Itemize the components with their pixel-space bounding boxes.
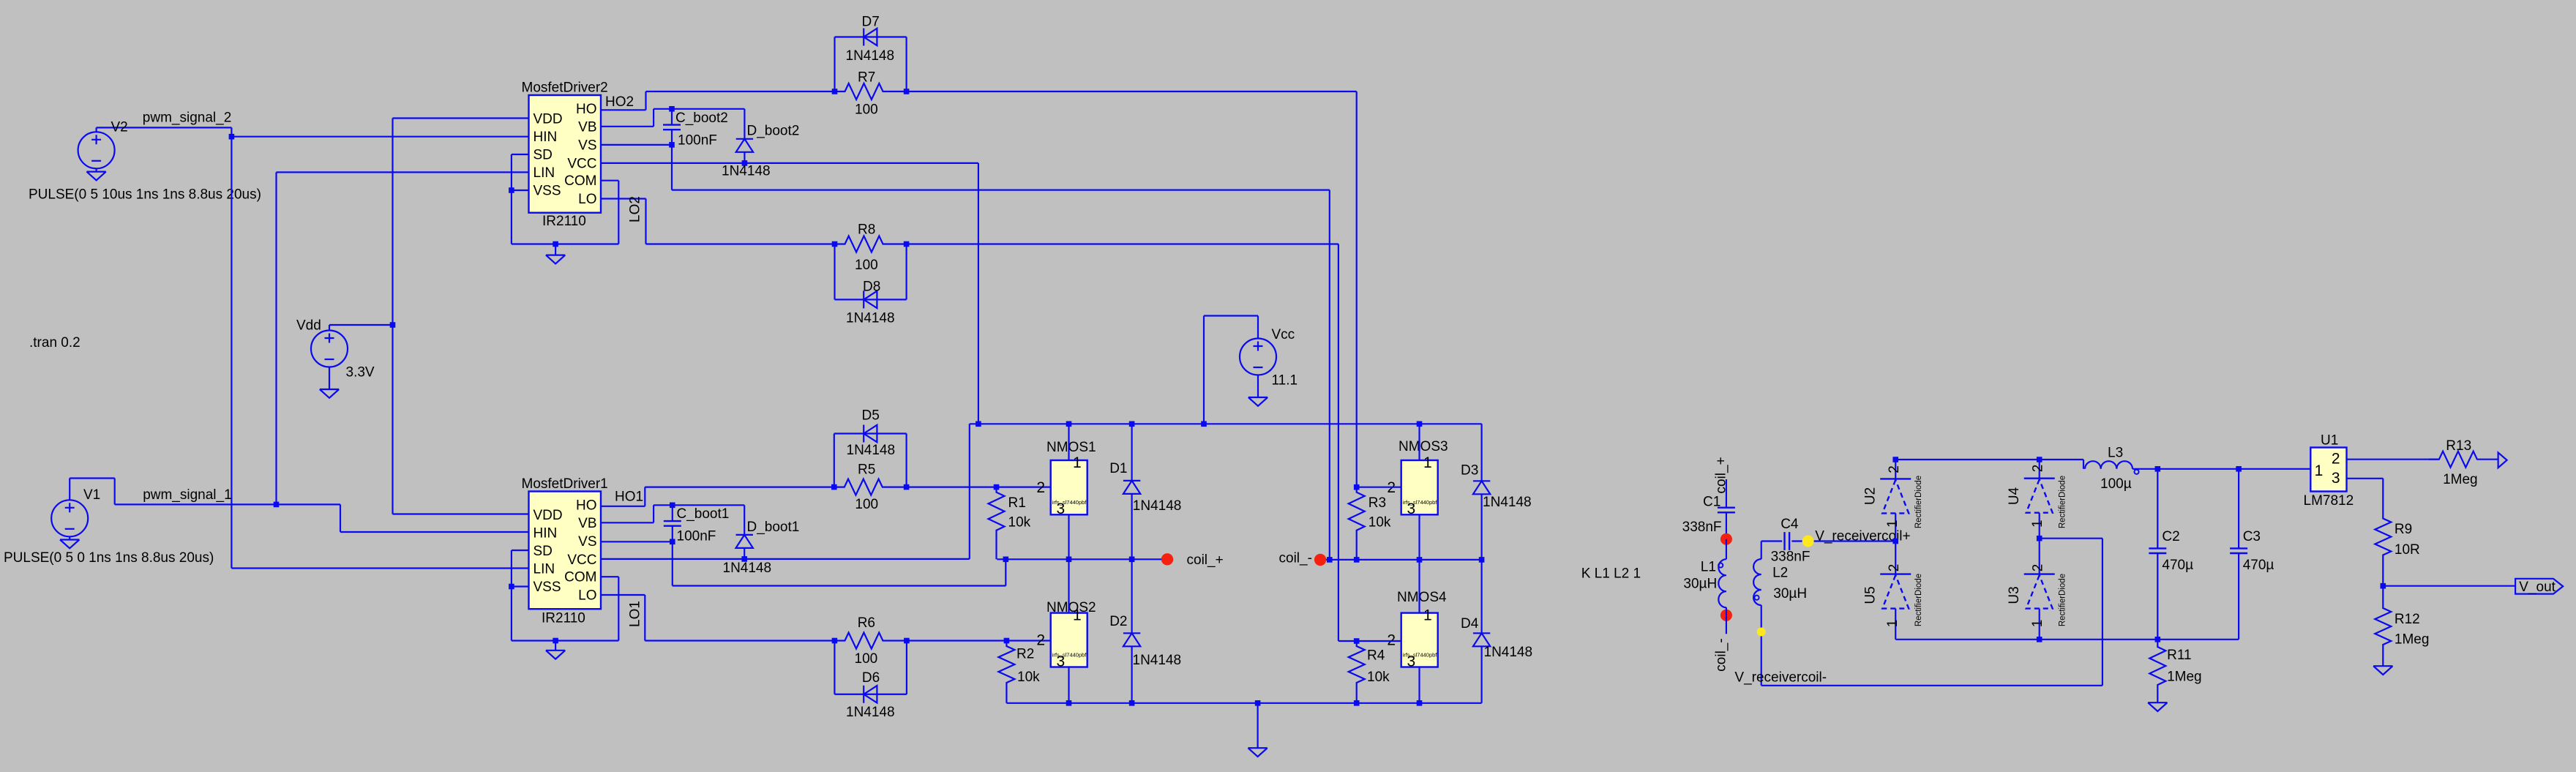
svg-text:2: 2 (1036, 632, 1045, 649)
svg-text:D_boot2: D_boot2 (747, 124, 800, 139)
svg-text:1N4148: 1N4148 (1133, 498, 1182, 514)
svg-text:VSS: VSS (533, 580, 561, 595)
svg-text:IR2110: IR2110 (542, 611, 585, 626)
svg-text:L3: L3 (2108, 446, 2123, 461)
svg-text:1Meg: 1Meg (2167, 670, 2202, 685)
svg-text:D7: D7 (862, 15, 880, 30)
svg-text:PULSE(0 5 10us 1ns 1ns 8.8us 2: PULSE(0 5 10us 1ns 1ns 8.8us 20us) (29, 187, 261, 203)
svg-text:100: 100 (855, 497, 878, 512)
svg-text:pwm_signal_1: pwm_signal_1 (143, 487, 231, 503)
svg-text:RectifierDiode: RectifierDiode (1914, 574, 1923, 626)
svg-text:2: 2 (1036, 479, 1045, 496)
svg-text:L1: L1 (1701, 560, 1716, 575)
svg-text:1Meg: 1Meg (2443, 472, 2478, 487)
svg-text:1: 1 (1423, 454, 1432, 471)
svg-text:V1: V1 (83, 487, 100, 503)
svg-text:LO: LO (578, 192, 596, 207)
svg-text:R3: R3 (1368, 495, 1386, 511)
svg-text:U5: U5 (1863, 586, 1879, 604)
svg-text:VB: VB (578, 120, 596, 135)
svg-text:IR2110: IR2110 (542, 214, 586, 229)
svg-text:VCC: VCC (567, 552, 596, 568)
svg-text:RectifierDiode: RectifierDiode (2059, 476, 2067, 528)
svg-text:R12: R12 (2395, 612, 2420, 627)
svg-text:C_boot1: C_boot1 (677, 506, 730, 522)
svg-text:D6: D6 (862, 670, 880, 686)
svg-text:11.1: 11.1 (1272, 373, 1298, 389)
svg-text:LO1: LO1 (628, 601, 643, 627)
svg-text:2: 2 (1887, 465, 1902, 473)
svg-text:SD: SD (533, 544, 553, 559)
svg-text:VDD: VDD (533, 508, 563, 523)
svg-text:D1: D1 (1109, 461, 1127, 476)
svg-text:coil_-: coil_- (1279, 551, 1312, 566)
svg-text:10R: 10R (2395, 542, 2420, 558)
svg-text:LM7812: LM7812 (2304, 493, 2354, 509)
svg-text:NMOS2: NMOS2 (1046, 600, 1096, 615)
svg-text:irfs_sl7440pbf: irfs_sl7440pbf (1403, 652, 1438, 659)
svg-text:100: 100 (855, 651, 878, 667)
svg-text:U2: U2 (1863, 487, 1879, 505)
svg-text:VS: VS (578, 138, 596, 154)
svg-text:10k: 10k (1017, 670, 1040, 685)
svg-text:MosfetDriver1: MosfetDriver1 (522, 476, 608, 492)
svg-text:coil_+: coil_+ (1187, 552, 1224, 568)
svg-text:COM: COM (564, 570, 596, 585)
svg-text:3.3V: 3.3V (346, 365, 375, 381)
svg-text:1Meg: 1Meg (2395, 632, 2430, 648)
svg-text:VSS: VSS (533, 184, 561, 199)
svg-text:.tran 0.2: .tran 0.2 (29, 335, 80, 351)
svg-text:R1: R1 (1008, 495, 1026, 511)
svg-text:1N4148: 1N4148 (1133, 653, 1182, 668)
svg-text:irfs_sl7440pbf: irfs_sl7440pbf (1052, 499, 1087, 506)
svg-text:irfs_sl7440pbf: irfs_sl7440pbf (1052, 652, 1087, 659)
svg-text:R4: R4 (1367, 648, 1385, 664)
svg-text:RectifierDiode: RectifierDiode (2059, 574, 2067, 626)
svg-text:100nF: 100nF (678, 133, 717, 149)
svg-text:1: 1 (2030, 620, 2045, 628)
svg-text:1N4148: 1N4148 (723, 561, 772, 576)
svg-text:D_boot1: D_boot1 (747, 520, 800, 535)
svg-text:1: 1 (1073, 607, 1082, 624)
svg-text:1: 1 (2030, 520, 2045, 528)
svg-text:NMOS1: NMOS1 (1046, 440, 1096, 455)
svg-text:U1: U1 (2321, 433, 2338, 449)
svg-text:338nF: 338nF (1771, 550, 1811, 565)
svg-text:30µH: 30µH (1683, 577, 1717, 592)
svg-text:1: 1 (1073, 454, 1082, 471)
svg-text:338nF: 338nF (1682, 520, 1722, 535)
svg-text:K L1 L2 1: K L1 L2 1 (1581, 566, 1641, 582)
svg-text:1N4148: 1N4148 (847, 443, 896, 458)
svg-text:SD: SD (533, 148, 553, 163)
svg-text:1N4148: 1N4148 (1484, 645, 1533, 660)
svg-text:LO2: LO2 (628, 196, 643, 222)
svg-text:2: 2 (1887, 564, 1902, 572)
svg-text:HIN: HIN (533, 526, 558, 541)
svg-text:U3: U3 (2007, 586, 2022, 604)
svg-text:1: 1 (1885, 620, 1901, 628)
svg-text:VS: VS (578, 534, 596, 550)
svg-text:VB: VB (578, 516, 596, 531)
svg-text:R11: R11 (2167, 648, 2191, 663)
svg-text:10k: 10k (1367, 670, 1390, 685)
svg-text:1N4148: 1N4148 (846, 48, 895, 64)
svg-text:470µ: 470µ (2162, 558, 2193, 573)
svg-text:D4: D4 (1461, 616, 1479, 632)
svg-text:V_out: V_out (2519, 580, 2556, 595)
svg-text:D3: D3 (1461, 463, 1478, 479)
svg-text:R5: R5 (858, 462, 875, 478)
svg-text:LIN: LIN (533, 165, 555, 181)
svg-text:HO: HO (576, 498, 597, 514)
svg-text:100nF: 100nF (677, 529, 716, 544)
svg-text:D5: D5 (862, 408, 880, 424)
svg-text:2: 2 (2332, 451, 2340, 468)
svg-text:470µ: 470µ (2243, 558, 2274, 573)
svg-text:10k: 10k (1368, 515, 1391, 531)
svg-text:1N4148: 1N4148 (1483, 495, 1532, 510)
svg-text:PULSE(0 5 0 1ns 1ns 8.8us 20us: PULSE(0 5 0 1ns 1ns 8.8us 20us) (4, 550, 214, 566)
svg-text:coil_-: coil_- (1713, 638, 1729, 671)
svg-text:1N4148: 1N4148 (722, 164, 771, 179)
svg-text:RectifierDiode: RectifierDiode (1914, 476, 1923, 528)
svg-text:LIN: LIN (533, 562, 555, 577)
svg-text:MosfetDriver2: MosfetDriver2 (522, 80, 608, 96)
svg-text:HO1: HO1 (615, 490, 643, 505)
svg-text:100: 100 (855, 258, 878, 273)
svg-text:10k: 10k (1008, 515, 1031, 531)
svg-text:1N4148: 1N4148 (846, 705, 895, 720)
svg-text:C4: C4 (1781, 517, 1799, 532)
svg-text:R2: R2 (1016, 647, 1034, 662)
svg-text:NMOS3: NMOS3 (1399, 439, 1448, 454)
svg-text:D2: D2 (1109, 614, 1127, 629)
svg-text:1: 1 (2315, 462, 2324, 479)
svg-text:R8: R8 (858, 222, 875, 238)
svg-text:C1: C1 (1703, 495, 1721, 510)
svg-text:NMOS4: NMOS4 (1397, 590, 1447, 605)
svg-text:V_receivercoil-: V_receivercoil- (1734, 670, 1827, 686)
svg-text:R6: R6 (858, 615, 875, 631)
svg-text:R13: R13 (2446, 438, 2471, 454)
svg-text:C2: C2 (2162, 529, 2179, 544)
svg-text:VCC: VCC (567, 157, 596, 172)
svg-text:2: 2 (2031, 564, 2046, 572)
svg-text:HO: HO (576, 102, 597, 117)
svg-text:C3: C3 (2243, 529, 2261, 544)
svg-text:R7: R7 (858, 70, 875, 86)
svg-text:irfs_sl7440pbf: irfs_sl7440pbf (1403, 499, 1438, 506)
svg-text:30µH: 30µH (1773, 586, 1807, 602)
svg-text:COM: COM (564, 173, 596, 189)
svg-text:1N4148: 1N4148 (846, 311, 895, 326)
svg-text:HIN: HIN (533, 130, 558, 145)
svg-text:100: 100 (855, 102, 878, 118)
svg-text:R9: R9 (2395, 522, 2412, 537)
svg-text:1: 1 (1423, 607, 1432, 624)
svg-text:U4: U4 (2007, 487, 2022, 505)
svg-text:HO2: HO2 (605, 94, 634, 110)
svg-text:D8: D8 (863, 280, 880, 295)
svg-text:C_boot2: C_boot2 (675, 110, 728, 126)
svg-text:1: 1 (1885, 520, 1901, 528)
svg-text:Vcc: Vcc (1272, 327, 1295, 342)
svg-text:3: 3 (2332, 470, 2340, 487)
svg-text:pwm_signal_2: pwm_signal_2 (143, 110, 231, 126)
svg-text:VDD: VDD (533, 112, 563, 127)
svg-text:100µ: 100µ (2100, 476, 2132, 492)
svg-text:L2: L2 (1772, 566, 1788, 581)
svg-text:Vdd: Vdd (296, 318, 321, 334)
svg-text:2: 2 (2031, 465, 2046, 473)
svg-text:V2: V2 (111, 120, 128, 135)
svg-text:LO: LO (578, 588, 596, 604)
